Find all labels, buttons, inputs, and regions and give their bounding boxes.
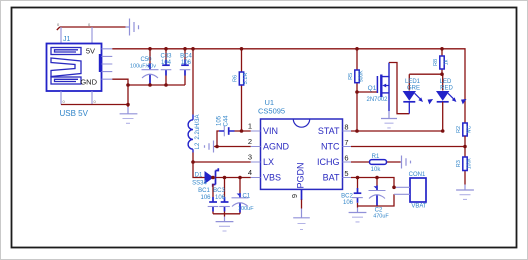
svg-text:C33: C33 [160, 54, 172, 60]
svg-text:5V: 5V [86, 47, 95, 56]
capacitor BC2 [352, 188, 363, 203]
wire Q1 drain to LED1 cathode [389, 63, 409, 114]
resistor R2 NC [463, 123, 467, 136]
svg-text:100uF/10v: 100uF/10v [130, 64, 156, 70]
wire pin5 gnd [112, 79, 185, 107]
transistor Q1 2N7002 [377, 63, 389, 112]
svg-text:106: 106 [343, 200, 354, 206]
capacitor C1 [232, 193, 249, 213]
svg-text:R8: R8 [433, 59, 439, 66]
svg-text:L2: L2 [195, 142, 201, 149]
svg-text:1k: 1k [444, 59, 450, 65]
ground GND2 (below USB) [120, 107, 138, 123]
svg-text:LX: LX [263, 157, 274, 167]
capacitor C44 [219, 126, 235, 137]
capacitor BC4 leads [184, 49, 186, 85]
svg-text:CON1: CON1 [409, 172, 426, 178]
svg-text:R1: R1 [372, 154, 380, 160]
svg-text:106: 106 [181, 60, 192, 66]
svg-text:D1: D1 [195, 173, 203, 179]
svg-text:100k: 100k [467, 158, 473, 169]
svg-text:CS5095: CS5095 [258, 107, 285, 116]
svg-text:NTC: NTC [321, 142, 340, 152]
LED1 GRE [403, 91, 434, 114]
svg-text:C50: C50 [140, 57, 152, 63]
svg-text:9: 9 [290, 194, 299, 198]
resistor R1 [370, 160, 387, 165]
U1 pin numbers [248, 122, 349, 199]
svg-text:VIN: VIN [263, 126, 278, 136]
svg-text:106: 106 [200, 195, 211, 201]
svg-text:106: 106 [215, 195, 226, 201]
connector J1 pin stubs 1-5 [102, 49, 113, 79]
svg-text:VBAT: VBAT [411, 204, 427, 210]
capacitor BC3 [219, 197, 230, 212]
diode D1 SS34 [205, 168, 219, 186]
capacitor C2 [369, 186, 386, 206]
svg-text:J1: J1 [63, 36, 71, 43]
connector J1 USB body [47, 44, 102, 92]
capacitor C50 [142, 64, 159, 85]
svg-text:GND: GND [80, 78, 97, 87]
wire BAT net [351, 178, 394, 208]
svg-text:GRE: GRE [407, 86, 420, 92]
connector J1 USB shield pins (top) [61, 27, 92, 44]
svg-text:BC3: BC3 [213, 188, 225, 194]
svg-text:6: 6 [344, 154, 348, 163]
resistor R5 leads [356, 49, 358, 131]
capacitor C44 leads [217, 131, 251, 147]
svg-text:BC4: BC4 [180, 54, 192, 60]
svg-text:VBS: VBS [263, 173, 281, 183]
ground GND8 (below R3) [456, 185, 474, 200]
svg-text:SS34: SS34 [192, 181, 207, 187]
wire NTC net [351, 146, 465, 148]
resistor R1 leads [351, 161, 401, 163]
wire LED anodes [409, 74, 442, 90]
svg-text:R2: R2 [456, 126, 462, 133]
svg-text:10k: 10k [371, 167, 382, 173]
svg-text:Q1: Q1 [368, 85, 377, 92]
capacitor C50 leads [149, 49, 151, 85]
svg-text:8: 8 [344, 123, 348, 132]
connector J1 shield pins (bottom) [61, 91, 92, 105]
U1 pin stubs [251, 131, 352, 178]
svg-text:500K: 500K [359, 70, 365, 82]
svg-text:1: 1 [248, 122, 252, 131]
svg-text:5: 5 [344, 169, 348, 178]
svg-text:RED: RED [440, 86, 453, 92]
ground GND9 (PGDN) [293, 209, 310, 230]
svg-text:LED: LED [440, 79, 452, 85]
capacitor BC1 [208, 197, 219, 212]
svg-text:BC2: BC2 [341, 194, 353, 200]
resistor R8 [440, 56, 444, 69]
wire top shield to ground [57, 27, 126, 30]
capacitor C33 [161, 60, 172, 76]
resistor R3 [463, 157, 467, 171]
connector CON1 [410, 178, 426, 202]
wire VBUS to L2 [192, 49, 194, 115]
wire shield bottom [61, 104, 128, 106]
svg-text:ICHG: ICHG [317, 157, 340, 167]
svg-text:USB 5V: USB 5V [60, 109, 89, 118]
svg-text:2.2uH/3A: 2.2uH/3A [195, 114, 201, 139]
svg-text:7: 7 [344, 138, 348, 147]
ground GND4 (AGND rotated left) [205, 141, 214, 153]
resistor R6 [239, 72, 243, 85]
svg-text:R6: R6 [233, 75, 239, 82]
svg-text:100uF: 100uF [238, 206, 254, 212]
capacitor BC4 [180, 60, 191, 76]
svg-text:STAT: STAT [318, 126, 340, 136]
svg-text:2N7002: 2N7002 [366, 97, 388, 103]
LED2 RED [436, 91, 467, 131]
wire gate [357, 91, 377, 93]
capacitor C33 leads [165, 49, 167, 85]
svg-text:3: 3 [248, 153, 252, 162]
resistor R5 [355, 70, 359, 83]
svg-text:PGDN: PGDN [296, 162, 306, 188]
svg-text:R5: R5 [348, 73, 354, 80]
ground GND5 (Q1 source) [381, 111, 397, 128]
svg-text:NC: NC [467, 126, 473, 134]
svg-text:2: 2 [248, 137, 252, 146]
ground GND7 (below BC2) [349, 208, 367, 222]
wire AGND [214, 146, 251, 148]
svg-text:4: 4 [248, 168, 252, 177]
wire VBS net [213, 178, 251, 217]
wire STAT net [351, 130, 443, 132]
resistor R8 leads [441, 49, 443, 74]
wire LX node [193, 153, 251, 178]
U1 pin names [263, 126, 340, 189]
U1 notch [293, 119, 309, 127]
svg-text:AGND: AGND [263, 142, 290, 152]
svg-text:C44: C44 [224, 115, 230, 127]
connector J1 edge bar [99, 54, 102, 72]
svg-text:105: 105 [217, 115, 223, 126]
wire pin9 to ground [301, 200, 303, 209]
svg-text:470uF: 470uF [373, 214, 389, 220]
svg-text:LED1: LED1 [405, 79, 421, 85]
U1 pin 9 stub [301, 189, 303, 200]
resistor R6 leads [241, 49, 243, 131]
wire VBUS rail [112, 49, 465, 123]
ground GND3 (below BC1/BC3/C1) [216, 217, 234, 232]
connector J1 USB glyph [51, 48, 81, 85]
wire R2-R3 [464, 136, 466, 185]
inductor L2 [188, 115, 193, 153]
svg-text:BC1: BC1 [198, 188, 210, 194]
svg-text:104: 104 [161, 60, 172, 66]
op-amp U1 CS5095 body [261, 119, 343, 189]
ground GND6 (ICHG rotated right) [401, 156, 411, 169]
svg-text:5.1R: 5.1R [243, 73, 249, 85]
svg-text:C1: C1 [243, 194, 251, 200]
svg-text:R3: R3 [456, 160, 462, 167]
svg-text:BAT: BAT [323, 173, 340, 183]
ground GND1 (rotated right, top-left) [126, 19, 139, 36]
